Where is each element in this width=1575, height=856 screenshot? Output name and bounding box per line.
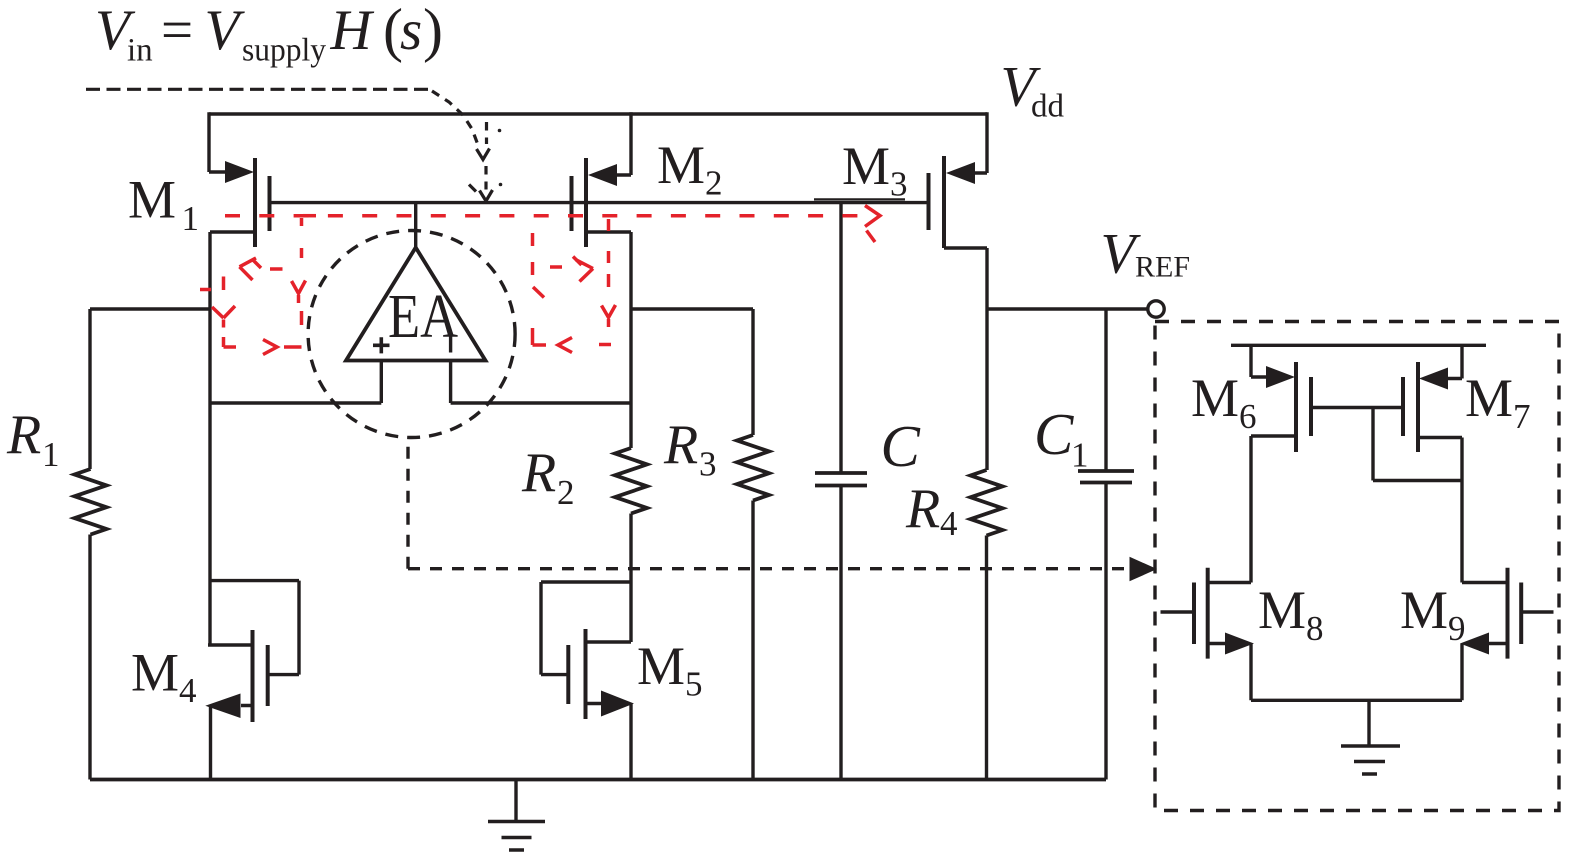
svg-text:REF: REF [1135,251,1190,284]
svg-text:M: M [1400,580,1448,640]
svg-text:2: 2 [557,473,575,512]
svg-text:3: 3 [890,165,908,204]
svg-text:M: M [128,170,176,230]
svg-text:6: 6 [1239,397,1257,436]
svg-text:M: M [637,636,685,696]
svg-text:1: 1 [1071,436,1089,475]
svg-text:R: R [6,404,41,466]
svg-text:R: R [905,478,940,540]
svg-text:supply: supply [242,33,326,69]
svg-text:4: 4 [179,671,197,710]
svg-text:9: 9 [1448,609,1466,648]
svg-text:4: 4 [940,504,958,543]
svg-text:M: M [1465,368,1513,428]
svg-text:R: R [663,414,698,476]
svg-text:EA: EA [388,283,458,351]
svg-text:M: M [1258,580,1306,640]
svg-text:8: 8 [1306,609,1324,648]
svg-text:dd: dd [1031,89,1065,125]
svg-text:H: H [330,0,375,62]
svg-text:M: M [842,136,890,196]
svg-text:M: M [1191,368,1239,428]
svg-text:C: C [881,413,921,479]
svg-text:3: 3 [699,445,717,484]
svg-text:in: in [127,33,153,69]
svg-text:1: 1 [182,199,200,238]
svg-text:=: = [161,0,193,62]
svg-text:R: R [521,442,556,504]
svg-text:5: 5 [685,665,703,704]
svg-text:2: 2 [705,164,723,203]
svg-text:M: M [657,135,705,195]
svg-text:7: 7 [1513,397,1531,436]
svg-text:s: s [400,0,422,62]
svg-text:M: M [131,643,179,703]
svg-text:): ) [423,0,443,63]
svg-text:1: 1 [42,435,60,474]
svg-text:C: C [1034,401,1074,467]
